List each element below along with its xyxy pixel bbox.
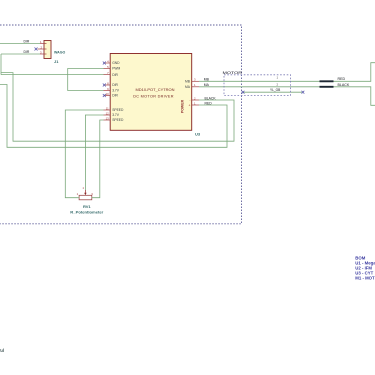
RV1 pin numbers [77,187,94,196]
wire power plus loop [0,85,227,148]
svg-text:BLACK: BLACK [205,96,217,100]
svg-text:MB: MB [204,77,210,81]
J1 pin3 stub [40,53,47,55]
wire SPEED to pot pin1 [65,110,103,198]
motor M1 dashed body [224,75,291,96]
IC power pin signs [189,98,191,107]
svg-text:WAGO: WAGO [54,50,65,55]
J1 pin1 stub [40,43,47,45]
svg-text:2: 2 [277,82,279,86]
IC left pin names [112,61,124,122]
wire DIR1 [0,43,40,45]
svg-text:DIR: DIR [24,40,30,44]
svg-text:12: 12 [106,111,110,115]
svg-text:Tul: Tul [0,348,4,353]
svg-text:POWER: POWER [181,99,185,113]
wire PWM to 3.7V [68,69,104,91]
wire SPEED to pot pin3 [92,120,103,198]
J1 pin numbers [40,40,43,55]
RV1 pin ticks [78,197,93,199]
IC right pin names MB MA [185,80,191,90]
no-connect X on YL_GR wire right [302,91,305,94]
svg-text:DIR: DIR [112,73,118,77]
wire DIR2 [1,53,40,55]
no-connect X on J1 pin2 [35,48,38,51]
svg-text:1: 1 [277,75,279,79]
no-connect X on GND pin [103,62,106,65]
svg-text:1: 1 [77,192,79,196]
svg-text:13: 13 [106,116,110,120]
svg-text:3: 3 [91,192,93,196]
svg-text:SPEED: SPEED [112,108,124,112]
svg-text:3.7V: 3.7V [112,89,120,93]
svg-text:MOTOR: MOTOR [223,71,243,75]
RV1 wiper arrow [84,190,86,195]
svg-text:-: - [189,98,190,102]
svg-text:RED: RED [338,77,346,81]
svg-text:J1: J1 [54,59,59,64]
wire branch to power minus (left) [1,73,234,142]
BOM note text [355,255,375,280]
svg-text:U3: U3 [195,131,201,136]
IC U3 body (MD10-POT CYTRON) [110,54,192,131]
svg-text:YL_GB: YL_GB [270,88,280,92]
svg-text:R_Potentiometer: R_Potentiometer [70,209,103,214]
svg-text:MB: MB [185,80,191,84]
svg-text:11: 11 [106,106,109,110]
svg-text:DC MOTOR DRIVER: DC MOTOR DRIVER [133,95,174,99]
wire 3.7V to pot wiper [85,115,103,190]
J1 pin2 stub [38,48,47,50]
sheet border (dashed) [0,25,242,224]
svg-text:DIR: DIR [24,50,30,54]
svg-text:SPEED: SPEED [112,118,124,122]
svg-text:2: 2 [83,187,85,190]
svg-text:DIR: DIR [112,94,118,98]
svg-text:M1 - MOT: M1 - MOT [355,276,375,281]
svg-text:DIR: DIR [112,83,118,87]
svg-text:+: + [189,104,191,108]
bold cable segment RED [320,80,334,82]
IC left pin numbers [106,59,110,120]
wire MA to motor (BLACK) [199,87,375,106]
svg-text:3.7V: 3.7V [112,113,120,117]
IC right pin numbers [194,78,196,106]
svg-text:MA: MA [185,85,191,89]
wire MB to motor (RED) [199,63,375,82]
svg-text:MA: MA [204,83,210,87]
svg-text:PWM: PWM [112,67,120,71]
potentiometer RV1 body [79,195,92,200]
no-connect X on DIR pin 10 [103,94,106,97]
svg-text:RED: RED [205,101,213,105]
svg-text:BLACK: BLACK [338,83,350,87]
svg-text:MD10-POT_CYTRON: MD10-POT_CYTRON [136,88,175,92]
no-connect X on YL_GR wire left [242,91,245,94]
wire YL_GR (unconnected) [243,91,302,93]
connector J1 body [44,41,51,59]
wire to IC DIR pin [1,74,104,76]
svg-text:RV1: RV1 [83,204,91,209]
svg-text:10: 10 [106,92,110,96]
wire left vertical from J1 pin3 [0,54,2,75]
IC right pin stubs [192,81,199,105]
IC left pin stubs [104,63,111,120]
bold cable segment BLACK [320,86,334,88]
svg-text:GND: GND [112,61,120,65]
no-connect X on DIR pin 8 [103,84,106,87]
